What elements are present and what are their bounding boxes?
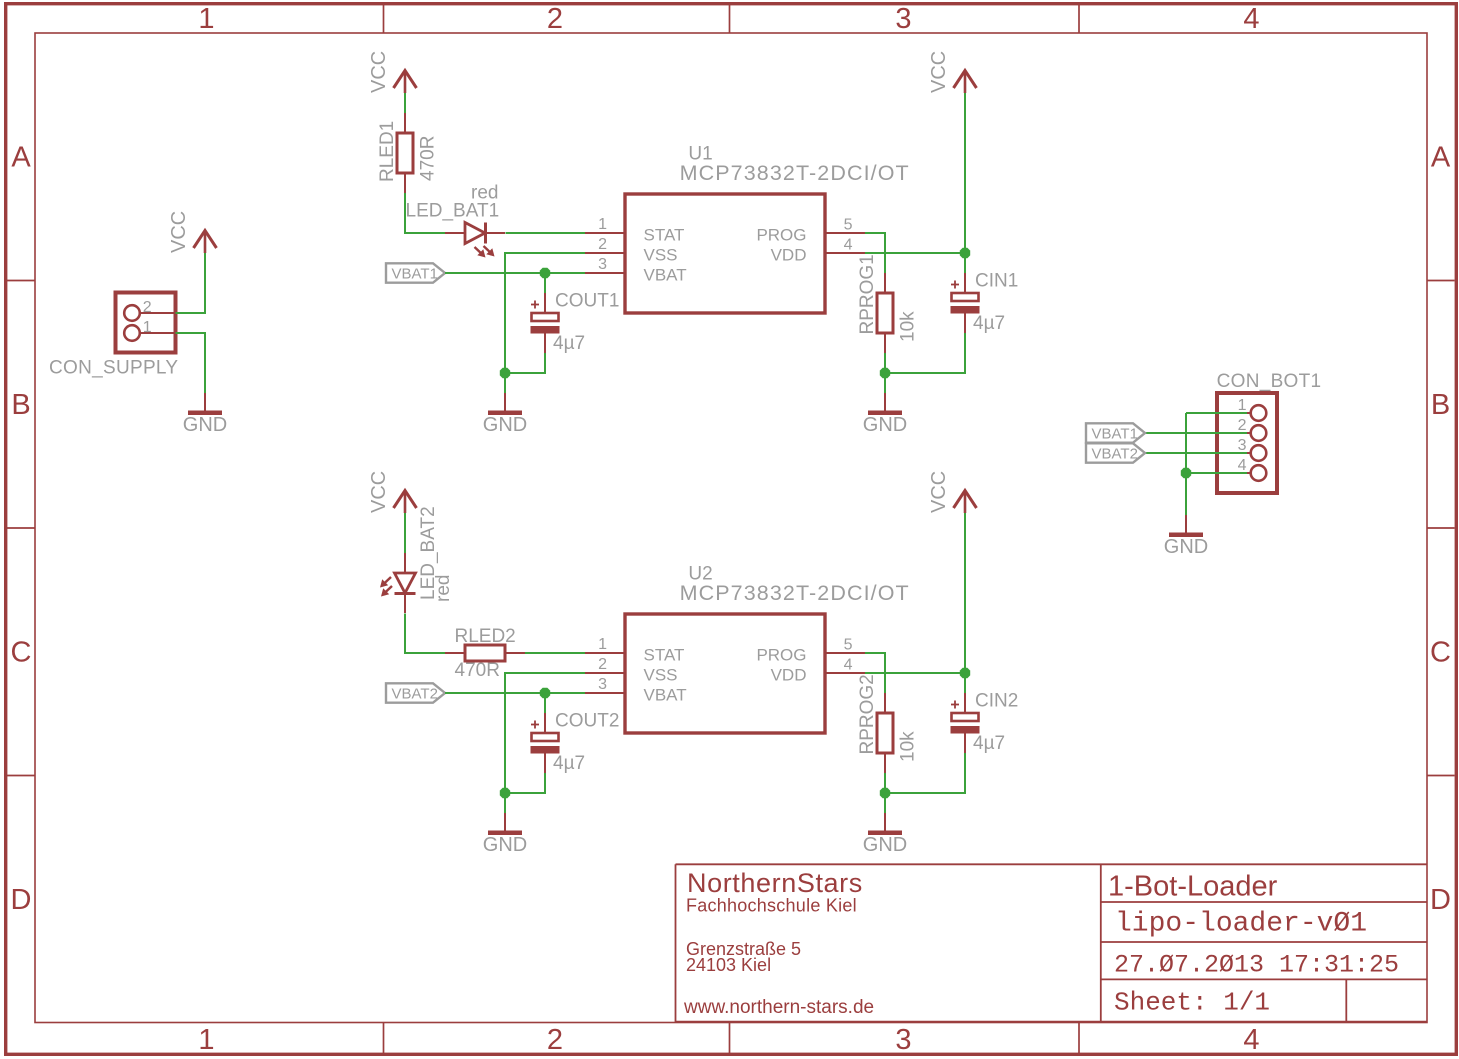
svg-text:3: 3 [598, 256, 607, 273]
svg-text:10k: 10k [898, 311, 919, 342]
svg-text:3: 3 [598, 676, 607, 693]
svg-text:VDD: VDD [771, 246, 807, 265]
svg-text:VSS: VSS [644, 246, 678, 265]
svg-text:5: 5 [844, 217, 853, 234]
svg-text:B: B [11, 389, 30, 421]
svg-text:1: 1 [598, 216, 607, 233]
svg-text:2: 2 [143, 299, 152, 316]
svg-text:VBAT1: VBAT1 [392, 266, 438, 283]
svg-text:GND: GND [183, 414, 227, 436]
svg-text:B: B [1431, 389, 1450, 421]
svg-text:A: A [1431, 142, 1451, 174]
svg-text:RLED1: RLED1 [377, 121, 398, 182]
svg-text:VCC: VCC [928, 51, 950, 93]
svg-text:470R: 470R [455, 660, 500, 681]
svg-text:LED_BAT1: LED_BAT1 [406, 201, 500, 222]
svg-text:4: 4 [1243, 3, 1259, 35]
svg-text:D: D [11, 884, 32, 916]
svg-text:Fachhochschule Kiel: Fachhochschule Kiel [686, 896, 857, 916]
svg-text:2: 2 [547, 3, 563, 35]
svg-text:4: 4 [1243, 1024, 1259, 1056]
svg-text:470R: 470R [418, 136, 439, 181]
svg-text:VBAT2: VBAT2 [392, 686, 438, 703]
svg-text:red: red [433, 575, 454, 602]
svg-text:COUT1: COUT1 [555, 291, 619, 312]
svg-text:PROG: PROG [756, 646, 806, 665]
svg-text:4µ7: 4µ7 [973, 733, 1005, 754]
svg-text:GND: GND [483, 414, 527, 436]
svg-text:RPROG1: RPROG1 [857, 254, 878, 334]
svg-text:STAT: STAT [644, 646, 685, 665]
svg-text:2: 2 [547, 1024, 563, 1056]
svg-text:VSS: VSS [644, 666, 678, 685]
svg-text:VBAT: VBAT [644, 686, 687, 705]
svg-text:D: D [1430, 884, 1451, 916]
svg-text:1: 1 [598, 636, 607, 653]
svg-text:www.northern-stars.de: www.northern-stars.de [683, 997, 874, 1018]
svg-text:RLED2: RLED2 [455, 626, 516, 647]
svg-text:4µ7: 4µ7 [973, 313, 1005, 334]
svg-text:VBAT2: VBAT2 [1092, 446, 1138, 463]
svg-text:RPROG2: RPROG2 [857, 674, 878, 754]
svg-text:COUT2: COUT2 [555, 711, 619, 732]
svg-text:2: 2 [598, 236, 607, 253]
svg-text:24103 Kiel: 24103 Kiel [686, 955, 771, 975]
svg-text:CIN2: CIN2 [975, 691, 1018, 712]
svg-text:4µ7: 4µ7 [553, 333, 585, 354]
svg-text:VDD: VDD [771, 666, 807, 685]
svg-text:VCC: VCC [168, 211, 190, 253]
svg-text:GND: GND [483, 834, 527, 856]
svg-text:MCP73832T-2DCI/OT: MCP73832T-2DCI/OT [680, 581, 910, 605]
svg-text:CON_BOT1: CON_BOT1 [1217, 371, 1322, 392]
svg-text:3: 3 [1238, 437, 1247, 454]
svg-text:Sheet: 1/1: Sheet: 1/1 [1114, 987, 1270, 1017]
svg-text:1-Bot-Loader: 1-Bot-Loader [1108, 871, 1278, 903]
svg-text:C: C [1430, 637, 1451, 669]
svg-text:1: 1 [143, 319, 152, 336]
svg-text:4: 4 [1238, 457, 1247, 474]
svg-text:GND: GND [863, 834, 907, 856]
svg-text:VBAT: VBAT [644, 266, 687, 285]
svg-text:2: 2 [598, 656, 607, 673]
svg-text:4: 4 [844, 656, 853, 673]
svg-text:GND: GND [863, 414, 907, 436]
svg-text:VCC: VCC [368, 51, 390, 93]
svg-text:2: 2 [1238, 417, 1247, 434]
svg-text:CIN1: CIN1 [975, 271, 1018, 292]
svg-text:GND: GND [1164, 536, 1208, 558]
svg-text:5: 5 [844, 637, 853, 654]
svg-text:STAT: STAT [644, 226, 685, 245]
svg-text:MCP73832T-2DCI/OT: MCP73832T-2DCI/OT [680, 161, 910, 185]
svg-text:VCC: VCC [928, 471, 950, 513]
svg-text:3: 3 [895, 1024, 911, 1056]
svg-text:NorthernStars: NorthernStars [687, 868, 863, 898]
svg-text:PROG: PROG [756, 226, 806, 245]
svg-text:3: 3 [895, 3, 911, 35]
svg-text:VBAT1: VBAT1 [1092, 426, 1138, 443]
svg-text:4µ7: 4µ7 [553, 753, 585, 774]
svg-text:4: 4 [844, 236, 853, 253]
svg-text:10k: 10k [898, 731, 919, 762]
svg-text:1: 1 [198, 3, 214, 35]
svg-text:A: A [11, 142, 31, 174]
svg-text:CON_SUPPLY: CON_SUPPLY [49, 358, 178, 379]
svg-text:lipo-loader-vØ1: lipo-loader-vØ1 [1115, 909, 1367, 940]
svg-text:1: 1 [198, 1024, 214, 1056]
svg-text:VCC: VCC [368, 471, 390, 513]
svg-text:1: 1 [1238, 397, 1247, 414]
svg-text:C: C [11, 637, 32, 669]
svg-text:27.Ø7.2Ø13 17:31:25: 27.Ø7.2Ø13 17:31:25 [1114, 950, 1399, 979]
